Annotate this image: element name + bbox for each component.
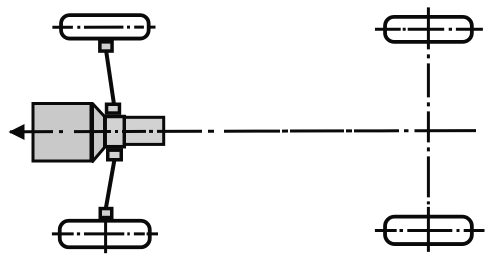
front-left wheel hub — [100, 42, 112, 51]
engine block — [33, 104, 91, 162]
rear-right wheel centerline — [375, 229, 485, 232]
front-left wheel — [61, 15, 149, 38]
final drive / differential block — [105, 117, 124, 147]
differential lower output flange — [108, 150, 122, 160]
gearbox — [125, 117, 164, 144]
lower drive shaft — [106, 161, 114, 209]
rear axle centerline — [427, 7, 430, 252]
front-right wheel — [385, 17, 472, 42]
upper drive shaft — [106, 52, 114, 103]
rear-left wheel vertical axis line — [104, 218, 107, 254]
rear-left wheel — [60, 221, 150, 248]
vehicle longitudinal centerline — [24, 131, 476, 132]
rear-left wheel centerline — [52, 232, 159, 235]
bell housing — [93, 104, 105, 162]
differential upper output flange — [107, 104, 120, 113]
direction arrow — [9, 124, 25, 140]
arrow shaft line — [10, 130, 24, 133]
front-right wheel centerline — [375, 28, 483, 31]
rear-left wheel hub — [100, 209, 112, 218]
front-left wheel centerline — [52, 26, 155, 29]
rear-right wheel — [385, 217, 472, 244]
